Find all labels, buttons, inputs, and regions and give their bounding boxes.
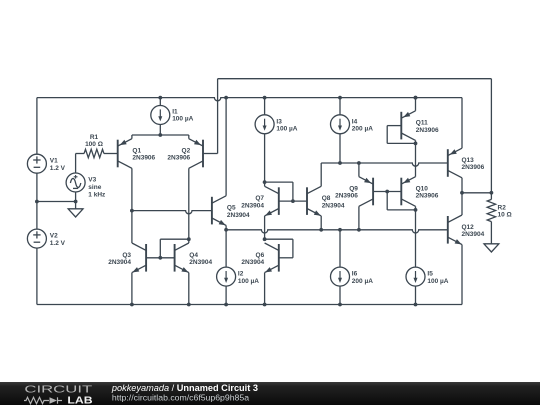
svg-text:10 Ω: 10 Ω xyxy=(498,212,512,219)
svg-text:100 µA: 100 µA xyxy=(238,278,259,285)
svg-text:1 kHz: 1 kHz xyxy=(88,191,106,198)
svg-text:Q4: Q4 xyxy=(189,252,198,259)
svg-text:LAB: LAB xyxy=(67,395,92,405)
svg-text:R1: R1 xyxy=(90,134,99,141)
svg-text:Q3: Q3 xyxy=(122,252,131,259)
svg-text:200 µA: 200 µA xyxy=(352,278,373,285)
svg-text:V1: V1 xyxy=(50,158,58,165)
svg-text:2N3904: 2N3904 xyxy=(241,259,264,266)
svg-text:2N3904: 2N3904 xyxy=(462,231,485,238)
svg-text:2N3906: 2N3906 xyxy=(416,127,439,134)
svg-text:sine: sine xyxy=(88,184,101,191)
svg-text:2N3906: 2N3906 xyxy=(416,193,439,200)
svg-text:I5: I5 xyxy=(427,271,433,278)
svg-text:200 µA: 200 µA xyxy=(352,126,373,133)
svg-text:Q7: Q7 xyxy=(255,195,264,202)
svg-text:100 µA: 100 µA xyxy=(276,126,297,133)
svg-text:http://circuitlab.com/c6f5up6p: http://circuitlab.com/c6f5up6p9h85a xyxy=(112,393,249,403)
svg-text:1.2 V: 1.2 V xyxy=(50,165,66,172)
svg-text:2N3906: 2N3906 xyxy=(167,155,190,162)
svg-text:100 Ω: 100 Ω xyxy=(85,141,103,148)
svg-text:Q13: Q13 xyxy=(462,157,475,164)
svg-text:2N3906: 2N3906 xyxy=(335,193,358,200)
svg-text:Q9: Q9 xyxy=(349,186,358,193)
svg-text:I3: I3 xyxy=(276,118,282,125)
svg-text:1.2 V: 1.2 V xyxy=(50,240,66,247)
svg-text:Q1: Q1 xyxy=(132,148,141,155)
svg-text:I2: I2 xyxy=(238,271,244,278)
svg-text:I1: I1 xyxy=(172,109,178,116)
svg-text:2N3904: 2N3904 xyxy=(241,202,264,209)
svg-text:I6: I6 xyxy=(352,271,358,278)
svg-text:2N3904: 2N3904 xyxy=(189,259,212,266)
svg-text:R2: R2 xyxy=(498,205,507,212)
svg-text:V3: V3 xyxy=(88,177,96,184)
svg-text:Q12: Q12 xyxy=(462,224,475,231)
svg-text:Q8: Q8 xyxy=(322,195,331,202)
svg-text:100 µA: 100 µA xyxy=(172,116,193,123)
svg-text:I4: I4 xyxy=(352,118,358,125)
svg-text:2N3904: 2N3904 xyxy=(227,212,250,219)
svg-text:Q2: Q2 xyxy=(182,148,191,155)
svg-text:2N3904: 2N3904 xyxy=(322,202,345,209)
svg-text:CIRCUIT: CIRCUIT xyxy=(24,384,92,395)
svg-text:2N3906: 2N3906 xyxy=(462,164,485,171)
svg-text:100 µA: 100 µA xyxy=(427,278,448,285)
svg-text:Q10: Q10 xyxy=(416,186,429,193)
svg-text:2N3906: 2N3906 xyxy=(132,155,155,162)
svg-text:Q6: Q6 xyxy=(256,252,265,259)
svg-text:Q5: Q5 xyxy=(227,205,236,212)
svg-text:2N3904: 2N3904 xyxy=(108,259,131,266)
svg-text:V2: V2 xyxy=(50,233,58,240)
svg-text:Q11: Q11 xyxy=(416,120,428,127)
